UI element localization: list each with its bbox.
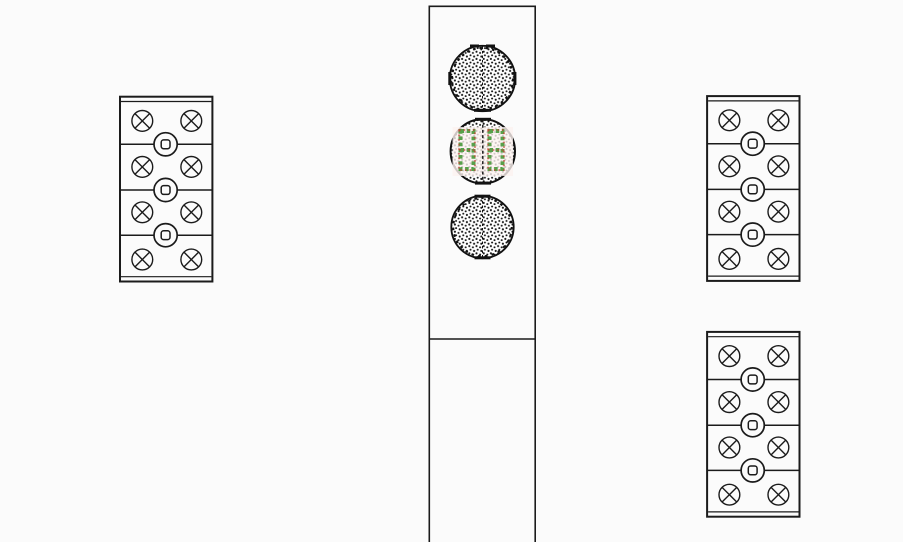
terminal block TB1 (left: lamp outputs) (120, 97, 212, 282)
digit 8 (tens) (459, 130, 475, 170)
digit 8 (ones) (488, 130, 504, 170)
terminal block TB2 (right top: communication) (707, 96, 799, 281)
terminal block TB3 (right bottom: pedestrian) (707, 332, 799, 517)
lamp L2 yellow countdown display (451, 118, 515, 185)
lamp L3 green full disk (451, 195, 513, 260)
lamp L1 red full disk (448, 45, 516, 112)
signal pole (429, 6, 537, 542)
